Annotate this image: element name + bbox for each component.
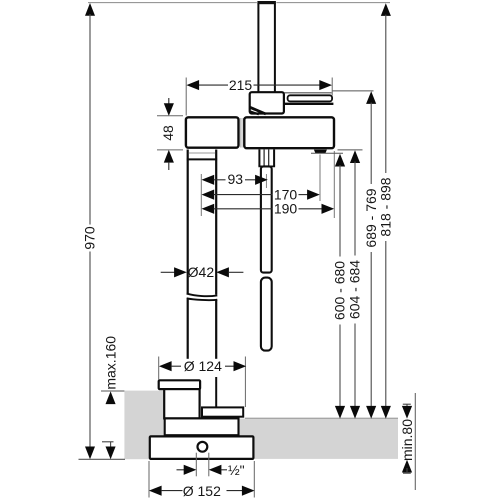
dimension 93	[202, 171, 268, 187]
svg-text:689 - 769: 689 - 769	[363, 188, 379, 247]
dimension 215	[186, 77, 332, 116]
riser rod	[257, 1, 276, 93]
swivel block	[250, 92, 284, 113]
pillar break squiggle	[187, 294, 218, 301]
svg-text:½": ½"	[228, 462, 245, 478]
right vertical dimension 600-680	[311, 153, 348, 418]
floor slab left (high finished floor)	[124, 391, 163, 460]
mounting column (upper level)	[164, 389, 199, 418]
svg-text:600 - 680: 600 - 680	[332, 261, 348, 320]
svg-text:190: 190	[274, 201, 298, 217]
svg-text:215: 215	[229, 77, 253, 93]
svg-text:604 - 684: 604 - 684	[347, 260, 363, 319]
dimension max.160	[101, 336, 124, 459]
dimension 190	[202, 151, 335, 218]
dimension Ø152	[149, 461, 255, 499]
svg-text:Ø 124: Ø 124	[184, 358, 222, 374]
pillar collar lines	[187, 153, 217, 159]
wedge hatch at swivel block bottom-left	[249, 107, 265, 114]
hand shower hose lower segment	[261, 278, 272, 351]
svg-text:max.160: max.160	[103, 336, 119, 390]
dimension Ø42	[161, 264, 244, 280]
hand shower hose upper segment	[261, 166, 272, 272]
pillar centerline reference	[200, 174, 202, 216]
mixer body	[244, 117, 334, 148]
hose nipple under body	[258, 150, 275, 167]
right vertical dimension 604-684	[338, 150, 363, 419]
right vertical dimension 689-769	[333, 91, 379, 419]
svg-text:93: 93	[228, 171, 244, 187]
floor bottom reference line	[79, 458, 126, 460]
base plate	[150, 436, 254, 459]
dimension 48	[157, 98, 183, 170]
floor slab right (low finished floor)	[163, 418, 398, 459]
top extension line	[88, 2, 390, 4]
dimension 970	[82, 3, 98, 459]
hose centerline reference	[265, 174, 267, 188]
svg-text:970: 970	[82, 226, 98, 250]
svg-text:min.80: min.80	[399, 419, 415, 461]
escutcheon step plate (lower level)	[202, 407, 243, 416]
spout arm	[284, 93, 334, 104]
seam lines between handle box and body	[241, 118, 243, 148]
mounting mid box	[165, 418, 239, 435]
aerator outlet	[314, 150, 327, 154]
dimension Ø124	[159, 357, 247, 408]
inlet circle	[198, 442, 208, 452]
svg-text:Ø42: Ø42	[188, 264, 215, 280]
svg-text:818 - 898: 818 - 898	[377, 177, 393, 236]
handle box (left)	[186, 117, 239, 147]
pillar walls	[188, 150, 217, 408]
dimension 170	[202, 155, 321, 203]
svg-text:48: 48	[160, 125, 176, 141]
dimension 1/2 inch	[177, 453, 245, 478]
right vertical dimension 818-898	[377, 3, 393, 418]
escutcheon flange (upper level)	[159, 380, 200, 389]
dimension min.80	[399, 393, 415, 490]
svg-text:Ø 152: Ø 152	[183, 483, 221, 499]
